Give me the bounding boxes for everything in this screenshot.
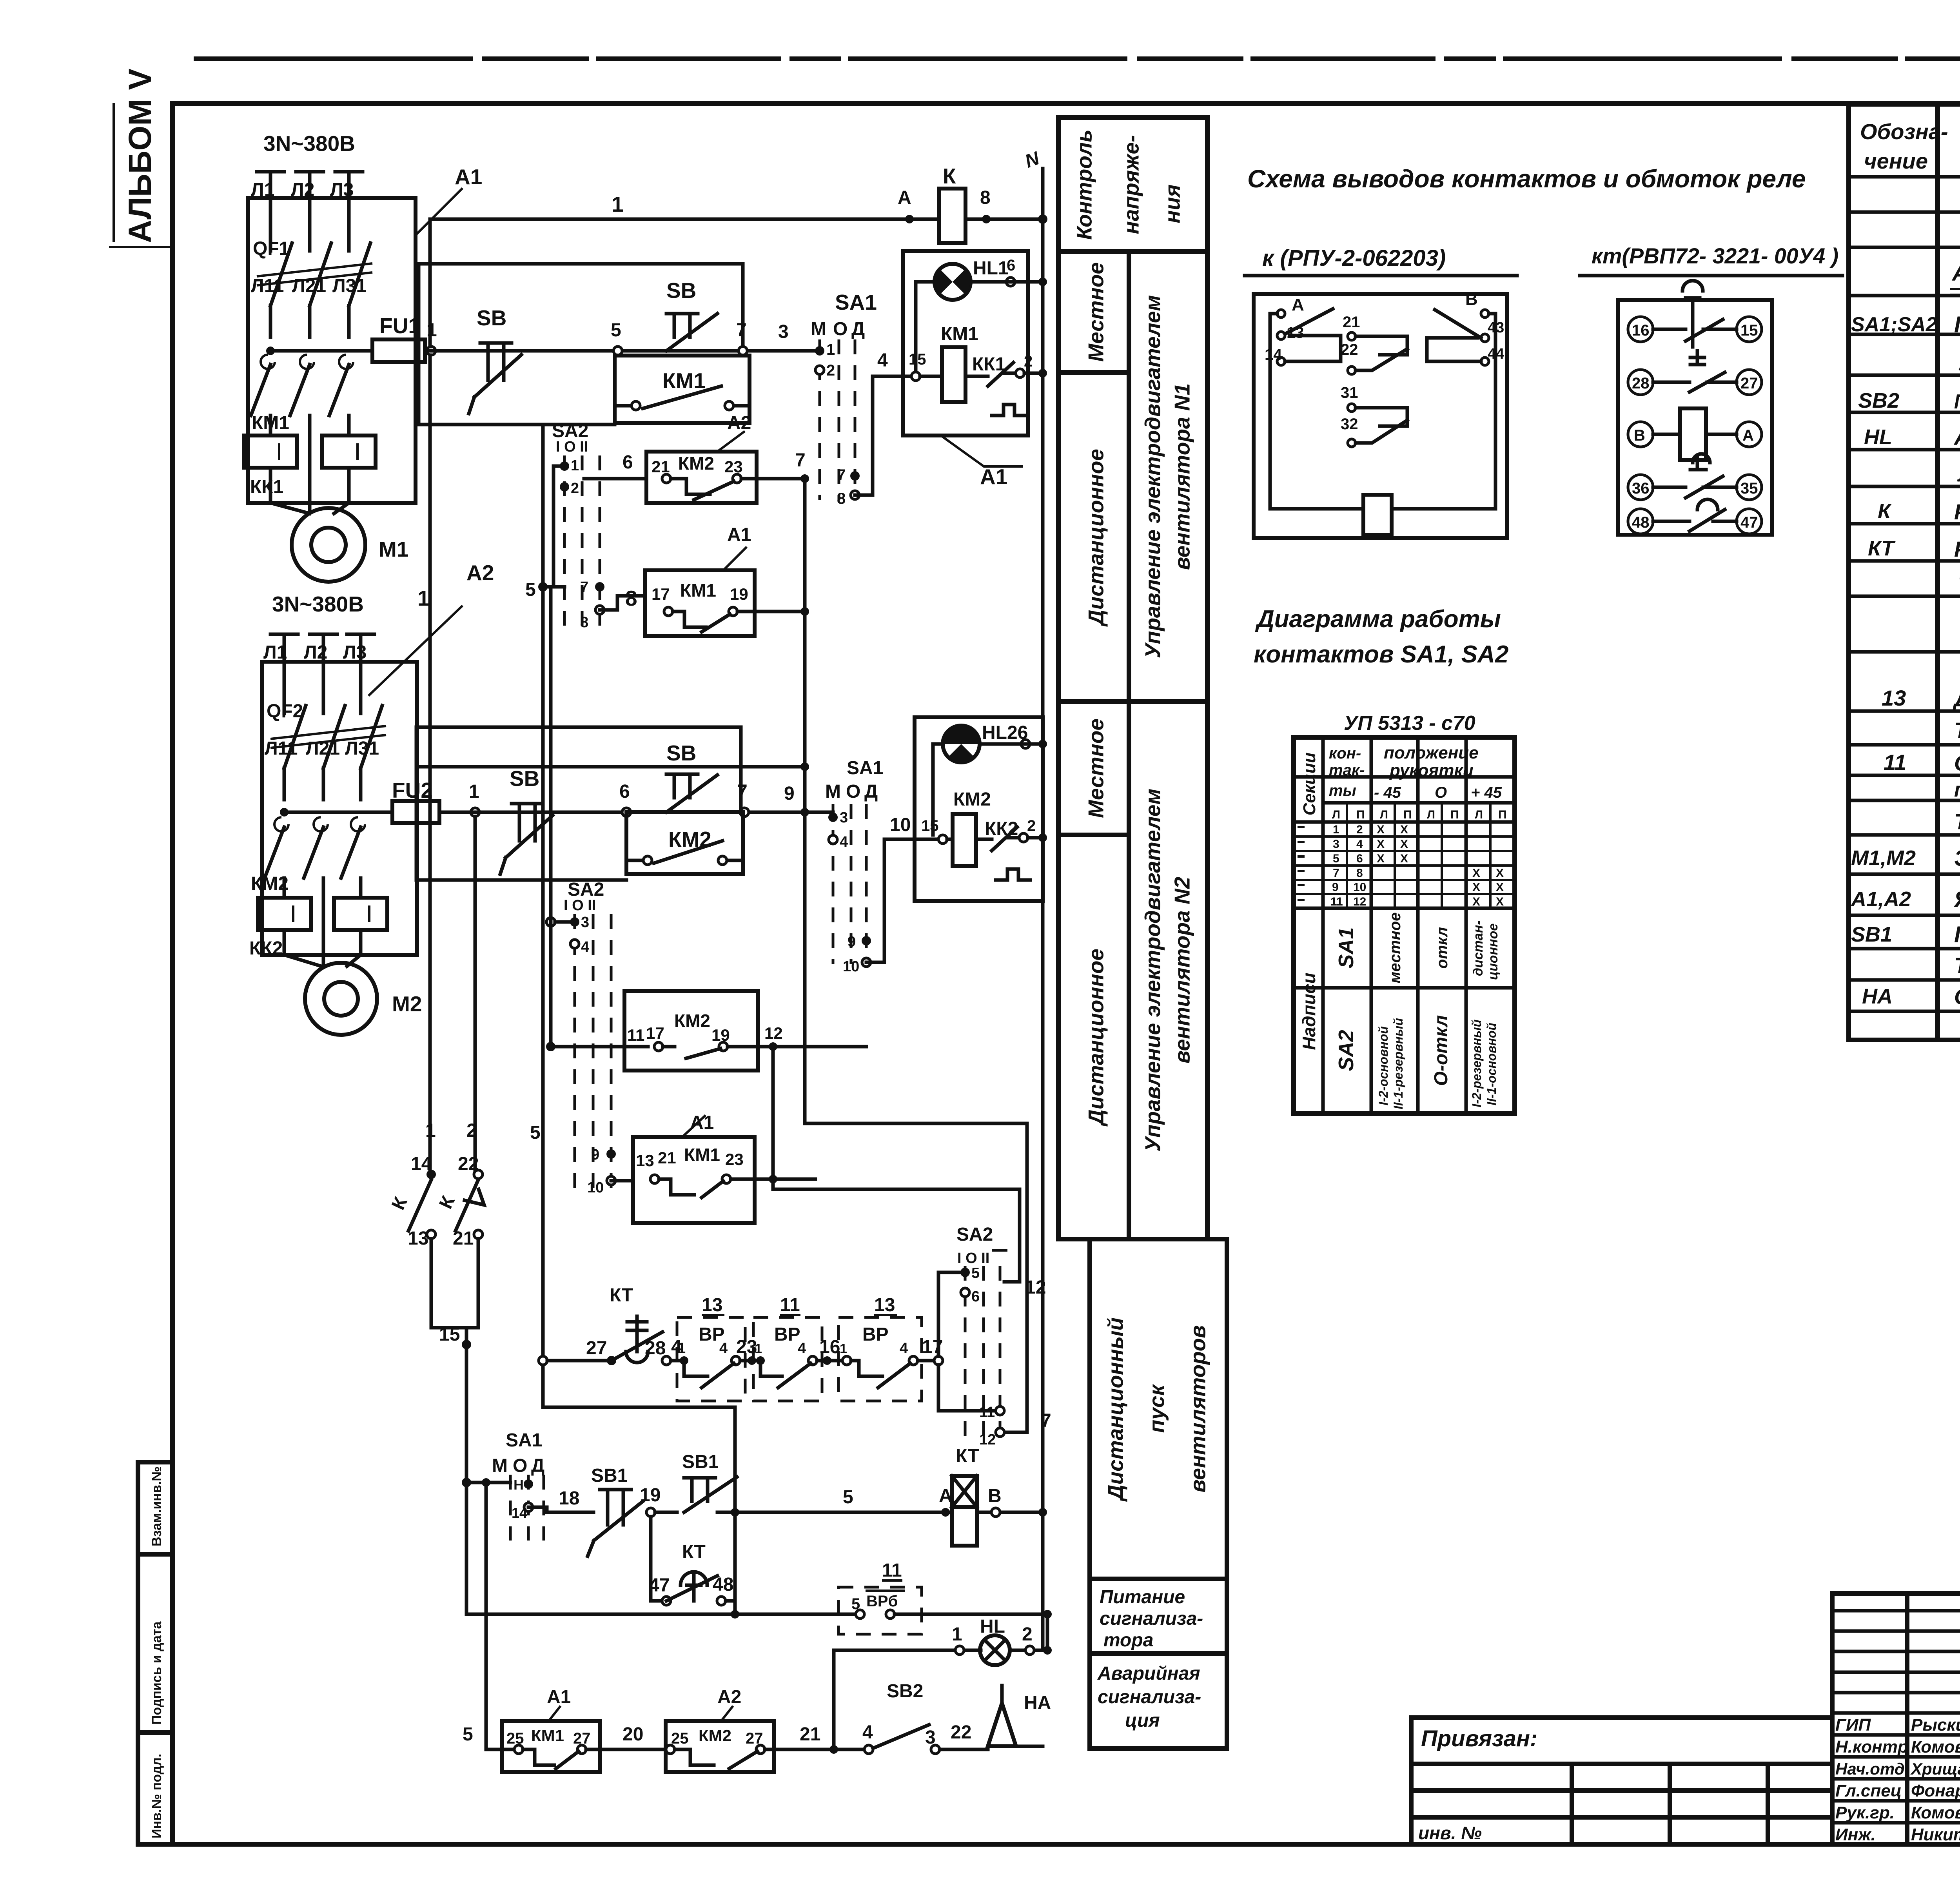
svg-text:А1: А1 xyxy=(727,524,751,545)
svg-text:Переключатель (тумблер)ТВ1-1 У: Переключатель (тумблер)ТВ1-1 УСО.360.049… xyxy=(1954,390,1960,413)
svg-text:X: X xyxy=(1377,852,1385,865)
svg-text:КК1: КК1 xyxy=(972,354,1005,375)
svg-text:М1,М2: М1,М2 xyxy=(1851,846,1916,870)
holding contact KM2 box xyxy=(626,812,743,874)
svg-text:SA2: SA2 xyxy=(1334,1030,1358,1071)
svg-text:УП 5313 - с70: УП 5313 - с70 xyxy=(1344,712,1475,735)
svg-text:ТУ 25.02.161384 - 78: ТУ 25.02.161384 - 78 xyxy=(1954,718,1960,742)
svg-text:3: 3 xyxy=(925,1727,936,1748)
svg-text:местное: местное xyxy=(1387,913,1404,983)
left margin inventory boxes xyxy=(138,1462,172,1844)
svg-text:16: 16 xyxy=(819,1337,840,1357)
KM1 contact 25-27 in A1 xyxy=(502,1721,600,1772)
svg-text:А1,А2: А1,А2 xyxy=(1850,887,1911,911)
svg-text:ционное: ционное xyxy=(1486,924,1501,980)
svg-text:22: 22 xyxy=(1341,341,1358,358)
svg-text:кон-: кон- xyxy=(1329,745,1361,762)
staff grid xyxy=(1832,1611,1960,1823)
feed wires motor2 xyxy=(416,727,805,880)
svg-text:КМ1: КМ1 xyxy=(531,1726,564,1745)
svg-text:Сигнализатор тяги СТСВ: Сигнализатор тяги СТСВ xyxy=(1954,751,1960,775)
node 16 xyxy=(823,1356,831,1365)
svg-text:О-откл: О-откл xyxy=(1431,1015,1452,1086)
function strip lower boxes xyxy=(1090,1239,1227,1579)
control unit A1 box xyxy=(903,251,1028,435)
svg-text:28: 28 xyxy=(645,1338,666,1359)
svg-text:КМ1: КМ1 xyxy=(680,580,716,601)
svg-text:4: 4 xyxy=(581,939,589,955)
node 23 xyxy=(748,1356,756,1365)
svg-text:12: 12 xyxy=(1353,895,1366,908)
svg-text:В: В xyxy=(1465,290,1478,309)
svg-text:8: 8 xyxy=(625,586,637,610)
lamp HL1 xyxy=(935,264,971,300)
svg-text:напряже-: напряже- xyxy=(1119,135,1143,234)
svg-text:22: 22 xyxy=(458,1154,479,1174)
svg-text:Нач.отд.: Нач.отд. xyxy=(1835,1760,1909,1778)
svg-text:11: 11 xyxy=(1330,895,1343,908)
KM1 block contact 17-19 (in A1) xyxy=(645,570,755,636)
svg-text:1: 1 xyxy=(755,1341,762,1356)
svg-text:КМ2: КМ2 xyxy=(678,453,714,474)
svg-text:17: 17 xyxy=(646,1024,664,1042)
svg-text:6: 6 xyxy=(971,1288,980,1305)
svg-text:КК1: КК1 xyxy=(250,477,283,497)
function strip upper table xyxy=(1058,118,1207,1239)
svg-text:ТУ16- 523. 472 - 79: ТУ16- 523. 472 - 79 xyxy=(1958,572,1960,597)
phase terminals L1 L2 L3 motor 2 xyxy=(270,634,374,682)
svg-text:SA1;SA2: SA1;SA2 xyxy=(1851,313,1937,336)
svg-text:кт(РВП72- 3221- 00У4 ): кт(РВП72- 3221- 00У4 ) xyxy=(1592,243,1838,268)
svg-text:Н.контр: Н.контр xyxy=(1835,1737,1908,1756)
svg-text:SA1: SA1 xyxy=(835,290,877,314)
svg-text:13: 13 xyxy=(874,1295,895,1316)
pressure switch chain wire xyxy=(539,1356,547,1365)
svg-text:Инж.: Инж. xyxy=(1835,1825,1876,1844)
svg-text:1: 1 xyxy=(952,1624,962,1645)
node on phase L11 motor2 xyxy=(280,808,289,817)
svg-text:Местное: Местное xyxy=(1084,262,1108,362)
TITLEBLOCK xyxy=(1411,1593,1960,1846)
KT delayed contact 47-48 xyxy=(651,1517,662,1601)
wire B vertical (from 19 down) xyxy=(805,1123,1027,1432)
svg-text:X: X xyxy=(1472,895,1480,908)
svg-text:М: М xyxy=(825,781,841,802)
svg-text:15: 15 xyxy=(439,1324,460,1345)
svg-text:2: 2 xyxy=(466,1120,477,1141)
svg-text:1: 1 xyxy=(571,457,579,474)
KT pins row 16-15 with time contact xyxy=(1628,317,1653,342)
svg-text:ВР: ВР xyxy=(774,1324,800,1345)
svg-text:16: 16 xyxy=(1632,322,1650,339)
svg-text:к (РПУ-2-062203): к (РПУ-2-062203) xyxy=(1262,245,1446,271)
svg-text:18: 18 xyxy=(559,1488,579,1509)
privyazan table xyxy=(1411,1718,1832,1844)
svg-text:Секции: Секции xyxy=(1300,753,1319,816)
wire 1 vertical drop xyxy=(428,355,432,1170)
svg-text:Реле РПУ-2-062203 220ВТУ16.523: Реле РПУ-2-062203 220ВТУ16.523.331-78 xyxy=(1954,499,1960,524)
long bracket line down from SA2-I xyxy=(549,587,553,1047)
svg-text:3N~380В: 3N~380В xyxy=(263,131,355,156)
svg-text:предел измерения: -1÷0,4: предел измерения: -1÷0,4 xyxy=(1954,778,1960,801)
svg-text:19: 19 xyxy=(730,585,748,603)
wire 8 to KM1 block contact xyxy=(600,596,645,610)
svg-text:Н: Н xyxy=(514,1477,524,1493)
svg-text:A: A xyxy=(1292,295,1304,314)
svg-text:2: 2 xyxy=(571,480,579,497)
svg-text:КТ: КТ xyxy=(610,1285,633,1306)
svg-text:SB: SB xyxy=(510,766,539,791)
svg-text:Л31: Л31 xyxy=(332,276,367,296)
node 5 xyxy=(613,347,622,355)
svg-text:5: 5 xyxy=(971,1265,980,1281)
svg-text:X: X xyxy=(1496,881,1504,894)
svg-text:В: В xyxy=(988,1486,1002,1506)
svg-text:48: 48 xyxy=(713,1574,733,1595)
svg-text:так-: так- xyxy=(1329,762,1365,779)
svg-text:КМ1: КМ1 xyxy=(941,324,978,345)
merge to node 15 xyxy=(431,1239,478,1614)
svg-text:SB1: SB1 xyxy=(591,1465,628,1486)
svg-text:вентиляторов: вентиляторов xyxy=(1186,1325,1210,1493)
svg-text:Л: Л xyxy=(1380,808,1388,821)
svg-text:SB2: SB2 xyxy=(1858,389,1899,412)
svg-text:12: 12 xyxy=(764,1024,783,1042)
svg-text:Надписи: Надписи xyxy=(1299,973,1319,1050)
svg-text:SB2: SB2 xyxy=(887,1681,923,1702)
node 7 motor2 xyxy=(740,808,749,817)
node A xyxy=(905,215,914,223)
svg-text:А: А xyxy=(939,1486,953,1506)
svg-text:14: 14 xyxy=(512,1505,527,1521)
svg-text:КТ: КТ xyxy=(682,1542,706,1562)
svg-text:SB1: SB1 xyxy=(682,1452,719,1472)
svg-text:+ 45: + 45 xyxy=(1471,784,1502,801)
contact B (43-44) xyxy=(1481,310,1489,318)
svg-text:1: 1 xyxy=(677,1340,686,1357)
svg-text:КМ1: КМ1 xyxy=(684,1145,720,1165)
svg-text:7: 7 xyxy=(736,320,747,341)
svg-text:22: 22 xyxy=(951,1722,971,1743)
svg-text:Контроль: Контроль xyxy=(1072,129,1096,240)
svg-text:23: 23 xyxy=(724,457,743,476)
svg-text:I О II: I О II xyxy=(957,1250,989,1267)
svg-text:12: 12 xyxy=(979,1432,996,1448)
svg-text:Рыскин: Рыскин xyxy=(1911,1715,1960,1735)
title block outer xyxy=(1832,1593,1960,1844)
svg-text:SA2: SA2 xyxy=(956,1224,993,1245)
svg-text:1: 1 xyxy=(469,781,479,802)
svg-text:сигнализа-: сигнализа- xyxy=(1098,1687,1201,1707)
svg-text:М: М xyxy=(492,1455,508,1476)
relay K pinout box xyxy=(1254,294,1507,538)
svg-text:В: В xyxy=(1634,427,1645,444)
svg-text:11: 11 xyxy=(882,1560,902,1581)
svg-text:3N~380В: 3N~380В xyxy=(272,592,364,616)
svg-text:21: 21 xyxy=(800,1724,820,1745)
node 7 xyxy=(739,347,747,355)
svg-text:3: 3 xyxy=(778,321,789,342)
svg-text:АЛЬБОМ V: АЛЬБОМ V xyxy=(122,68,158,243)
svg-text:25: 25 xyxy=(671,1730,689,1747)
svg-text:дистан-: дистан- xyxy=(1471,920,1486,976)
svg-text:НА: НА xyxy=(1024,1693,1051,1713)
svg-text:М: М xyxy=(811,319,826,339)
svg-text:А: А xyxy=(898,187,911,208)
svg-text:36: 36 xyxy=(1632,480,1650,497)
svg-text:Дистанционный: Дистанционный xyxy=(1103,1317,1128,1502)
svg-text:X: X xyxy=(1472,867,1480,880)
svg-text:27: 27 xyxy=(586,1338,607,1359)
node on phase L11 xyxy=(266,347,275,355)
STRIPS xyxy=(1058,118,1227,1749)
svg-text:Хрищанович: Хрищанович xyxy=(1910,1760,1960,1778)
svg-text:HL26: HL26 xyxy=(982,722,1028,743)
svg-text:Реле времени РВП72-3323-00У4-: Реле времени РВП72-3323-00У4- 220/50 xyxy=(1954,537,1960,561)
svg-text:К: К xyxy=(943,164,956,188)
svg-text:А2: А2 xyxy=(466,561,494,585)
svg-text:- 45: - 45 xyxy=(1374,784,1401,801)
svg-text:КМ1: КМ1 xyxy=(662,368,706,393)
svg-text:4: 4 xyxy=(1356,838,1363,851)
svg-text:3: 3 xyxy=(840,809,848,826)
svg-text:SB: SB xyxy=(666,741,696,765)
svg-text:7: 7 xyxy=(580,579,588,595)
svg-text:Управление электродвигателем: Управление электродвигателем xyxy=(1141,295,1165,658)
svg-text:8: 8 xyxy=(837,490,846,507)
MIDDIAG xyxy=(1245,165,1842,1114)
svg-text:А2: А2 xyxy=(717,1687,741,1707)
svg-text:ВРб: ВРб xyxy=(866,1593,898,1610)
svg-text:15: 15 xyxy=(921,817,939,835)
svg-text:X: X xyxy=(1496,867,1504,880)
svg-text:X: X xyxy=(1400,838,1408,851)
svg-text:X: X xyxy=(1377,823,1385,836)
svg-text:I-2-резервный: I-2-резервный xyxy=(1470,1020,1484,1107)
svg-text:32: 32 xyxy=(1341,416,1358,433)
svg-text:Инв.№ подл.: Инв.№ подл. xyxy=(149,1754,164,1838)
svg-text:3: 3 xyxy=(581,914,589,931)
svg-text:П: П xyxy=(1356,808,1365,821)
svg-text:5: 5 xyxy=(843,1487,853,1508)
svg-text:10: 10 xyxy=(1353,881,1366,894)
svg-text:О: О xyxy=(846,781,860,802)
svg-text:21: 21 xyxy=(453,1228,474,1249)
svg-text:1: 1 xyxy=(612,192,624,216)
svg-text:11: 11 xyxy=(780,1295,800,1316)
svg-text:Д: Д xyxy=(531,1455,544,1476)
svg-text:КК2: КК2 xyxy=(249,938,283,959)
svg-text:X: X xyxy=(1400,823,1408,836)
KT pins row 36-35 time contact xyxy=(1628,475,1653,500)
svg-text:Местное: Местное xyxy=(1084,719,1108,818)
svg-text:14: 14 xyxy=(1265,346,1282,363)
start chain wire xyxy=(462,1478,471,1487)
svg-text:X: X xyxy=(1400,852,1408,865)
svg-text:Л: Л xyxy=(1332,808,1340,821)
control box A2 (enclosure) xyxy=(262,662,417,955)
svg-text:4: 4 xyxy=(798,1340,806,1357)
svg-text:3: 3 xyxy=(1333,838,1339,851)
svg-text:чение: чение xyxy=(1864,149,1928,173)
svg-text:КМ2: КМ2 xyxy=(699,1726,731,1745)
svg-text:I О II: I О II xyxy=(556,439,588,455)
svg-text:Сирена сигнальная ВСС-4 ~220В: Сирена сигнальная ВСС-4 ~220В xyxy=(1954,984,1960,1009)
svg-text:7: 7 xyxy=(795,450,806,471)
svg-text:II-1-резервный: II-1-резервный xyxy=(1391,1018,1405,1109)
svg-text:Комова: Комова xyxy=(1911,1737,1960,1756)
svg-text:10: 10 xyxy=(587,1179,604,1196)
contact A (13-14) xyxy=(1277,310,1285,318)
bracket from node 17 to SA2 xyxy=(938,1272,996,1411)
svg-text:А1: А1 xyxy=(980,465,1007,489)
KM2 block contact 11-17-19 xyxy=(551,1045,648,1049)
svg-text:откл: откл xyxy=(1434,927,1451,969)
svg-text:Переключатель универсальный: Переключатель универсальный xyxy=(1954,312,1960,338)
KM2 contact 25-27 in A2 xyxy=(666,1721,774,1772)
svg-text:рукоятки: рукоятки xyxy=(1389,761,1474,780)
svg-text:Фонарев: Фонарев xyxy=(1911,1781,1960,1800)
svg-text:КТ: КТ xyxy=(1868,537,1896,560)
svg-text:X: X xyxy=(1377,838,1385,851)
svg-text:8: 8 xyxy=(1356,867,1363,880)
control wire motor 2 xyxy=(439,811,833,814)
svg-text:FU1: FU1 xyxy=(379,314,420,338)
svg-text:11: 11 xyxy=(627,1026,644,1044)
svg-text:7: 7 xyxy=(1041,1410,1051,1431)
wire to KM1 holding contact xyxy=(419,264,743,425)
svg-text:5: 5 xyxy=(525,579,536,600)
switch SA2 lower contacts 9-10 xyxy=(606,1149,616,1159)
svg-text:8: 8 xyxy=(580,614,588,631)
svg-text:4: 4 xyxy=(877,350,888,371)
svg-text:FU2: FU2 xyxy=(392,778,433,802)
svg-text:Электродвигатель 380В: Электродвигатель 380В xyxy=(1954,846,1960,871)
svg-text:5: 5 xyxy=(530,1122,541,1143)
control wire motor 1 xyxy=(430,349,820,353)
svg-text:КТ: КТ xyxy=(956,1446,979,1466)
svg-text:9: 9 xyxy=(784,783,795,804)
svg-text:20: 20 xyxy=(622,1724,643,1745)
svg-text:HL: HL xyxy=(1864,425,1892,449)
svg-text:12: 12 xyxy=(1025,1277,1046,1298)
svg-text:А2: А2 xyxy=(727,413,751,434)
svg-text:2: 2 xyxy=(1356,823,1363,836)
svg-text:КМ2: КМ2 xyxy=(953,789,991,810)
svg-text:2: 2 xyxy=(1027,817,1036,835)
svg-text:9: 9 xyxy=(591,1147,599,1163)
svg-text:HL1: HL1 xyxy=(973,258,1009,279)
svg-text:Гл.спец: Гл.спец xyxy=(1835,1781,1902,1800)
svg-text:47: 47 xyxy=(649,1575,670,1596)
PARTSTABLE xyxy=(1849,104,1960,1040)
svg-text:35: 35 xyxy=(1740,480,1758,497)
svg-text:П: П xyxy=(1450,808,1459,821)
svg-text:9: 9 xyxy=(1332,881,1339,894)
svg-text:ния: ния xyxy=(1160,184,1185,223)
svg-text:Привязан:: Привязан: xyxy=(1421,1726,1537,1751)
svg-text:X: X xyxy=(1496,895,1504,908)
svg-text:SB: SB xyxy=(477,306,506,330)
svg-text:М1: М1 xyxy=(379,537,408,561)
svg-text:Взам.инв.№: Взам.инв.№ xyxy=(149,1466,164,1546)
svg-text:О: О xyxy=(833,319,848,339)
svg-text:1: 1 xyxy=(840,1341,847,1356)
svg-text:13: 13 xyxy=(1882,686,1906,710)
bus 1 to relay K xyxy=(430,219,909,347)
KT pins row 48-47 contact xyxy=(1628,509,1653,534)
svg-text:Л: Л xyxy=(1427,808,1435,821)
lamp circuit wire xyxy=(834,1649,981,1652)
svg-text:ТУ16.526.198-76: ТУ16.526.198-76 xyxy=(1954,953,1960,978)
svg-text:23: 23 xyxy=(725,1150,744,1169)
phase terminals L1 L2 L3 motor 1 xyxy=(257,172,363,220)
svg-text:Питание: Питание xyxy=(1100,1587,1185,1608)
svg-text:47: 47 xyxy=(1740,514,1758,531)
svg-text:Диаграмма работы: Диаграмма работы xyxy=(1255,606,1501,633)
svg-text:1: 1 xyxy=(417,586,430,610)
svg-text:6: 6 xyxy=(1007,257,1015,274)
svg-text:4: 4 xyxy=(900,1340,908,1357)
svg-text:21: 21 xyxy=(1343,314,1360,331)
KM1 block contact 13-21-23 (A1) xyxy=(633,1137,755,1223)
svg-text:10: 10 xyxy=(890,815,911,835)
svg-text:ты: ты xyxy=(1329,782,1356,799)
svg-text:5: 5 xyxy=(611,320,621,341)
svg-text:4: 4 xyxy=(862,1722,873,1743)
motor M1 xyxy=(270,503,349,514)
svg-text:21: 21 xyxy=(658,1149,676,1167)
svg-text:6: 6 xyxy=(1356,852,1363,865)
svg-text:8: 8 xyxy=(980,187,991,208)
motor M2 xyxy=(284,955,361,966)
top perforation dashed line xyxy=(196,56,1960,61)
KM2 block contact 21-23 (in A2) xyxy=(646,452,757,503)
svg-text:19: 19 xyxy=(640,1485,661,1506)
svg-text:Д: Д xyxy=(864,781,878,802)
parts list table grid xyxy=(1849,104,1960,1040)
svg-text:4: 4 xyxy=(840,834,848,850)
svg-text:А1: А1 xyxy=(547,1687,571,1707)
svg-text:тора: тора xyxy=(1103,1630,1153,1651)
svg-text:П: П xyxy=(1403,808,1412,821)
svg-text:SB: SB xyxy=(666,278,696,303)
svg-text:А1: А1 xyxy=(690,1112,714,1133)
svg-text:6: 6 xyxy=(619,781,630,802)
svg-text:31: 31 xyxy=(1341,384,1358,401)
node 6 xyxy=(622,808,631,817)
svg-text:SB1: SB1 xyxy=(1851,923,1892,946)
svg-text:ТУ 25.02.101237 -78: ТУ 25.02.101237 -78 xyxy=(1954,809,1960,834)
svg-text:11: 11 xyxy=(1884,750,1906,775)
svg-text:положение: положение xyxy=(1384,743,1479,762)
KT coil row B-A xyxy=(1628,422,1653,447)
svg-text:1: 1 xyxy=(1333,823,1339,836)
svg-text:Обозна-: Обозна- xyxy=(1860,119,1948,144)
svg-text:контактов SA1, SA2: контактов SA1, SA2 xyxy=(1254,641,1508,668)
svg-text:вентилятора N2: вентилятора N2 xyxy=(1170,876,1194,1063)
svg-text:17: 17 xyxy=(652,585,670,603)
svg-text:1: 1 xyxy=(826,341,835,358)
svg-text:10: 10 xyxy=(843,958,859,975)
svg-text:SA1: SA1 xyxy=(1334,927,1358,968)
svg-text:Аппаратура на щите автоматизац: Аппаратура на щите автоматизации П8 xyxy=(1951,260,1960,286)
KT pins row 28-27 contact xyxy=(1628,370,1653,395)
svg-text:УП5313- с70 ТУ16-524.074-75: УП5313- с70 ТУ16-524.074-75 xyxy=(1958,350,1960,376)
svg-text:ГИП: ГИП xyxy=(1835,1715,1871,1735)
svg-text:Ящик управления: Ящик управления xyxy=(1953,887,1960,912)
feeder wire bottom (to VRb) xyxy=(466,1613,860,1616)
